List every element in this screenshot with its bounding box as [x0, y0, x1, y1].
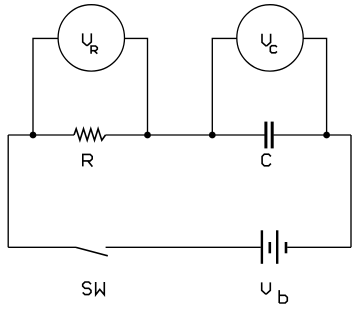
- label V_C: [262, 34, 277, 53]
- wire VR tap right (from meter over and down to node B): [124, 38, 147, 135]
- wire VR tap left (from node A up and over to meter): [33, 38, 58, 135]
- node D junction dot: [323, 132, 330, 139]
- node A junction dot: [30, 132, 37, 139]
- voltmeter U2 circle (V_C): [237, 5, 303, 71]
- wire bottom right segment (battery to right side): [287, 246, 351, 248]
- wire main horizontal left segment: [8, 134, 74, 136]
- wire VC tap left (from node C up and over to meter): [212, 38, 237, 135]
- wire main horizontal middle segment: [106, 134, 265, 136]
- resistor R: [74, 129, 106, 140]
- node B junction dot: [144, 132, 151, 139]
- node C junction dot: [209, 132, 216, 139]
- capacitor C: [264, 122, 273, 149]
- wire right vertical side: [350, 135, 352, 247]
- label C: [262, 154, 271, 166]
- label V_R: [83, 33, 98, 53]
- wire main horizontal right segment: [274, 134, 351, 136]
- wire VC tap right (from meter over and down to node D): [303, 38, 326, 135]
- label R: [83, 154, 93, 166]
- battery Vb: [261, 230, 288, 263]
- wire bottom left segment (to switch): [8, 246, 76, 248]
- label SW: [83, 282, 105, 295]
- label V_b: [262, 282, 288, 303]
- wire left vertical side: [7, 135, 9, 247]
- voltmeter U1 circle (V_R): [58, 5, 124, 71]
- wire bottom middle segment (switch to battery): [106, 246, 261, 248]
- switch SW blade (open): [76, 247, 108, 255]
